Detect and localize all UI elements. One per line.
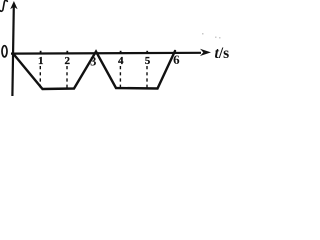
tick t=2: [66, 51, 68, 54]
faint speck 2: [215, 37, 217, 39]
dashed line t=1: [39, 66, 41, 89]
waveform trapezoid curve: [14, 51, 176, 89]
origin label 0: [2, 46, 7, 57]
faint speck 1: [202, 33, 204, 35]
svg-text:1: 1: [38, 55, 44, 67]
dashed line t=5: [146, 66, 148, 88]
y-axis arrowhead: [10, 1, 17, 9]
dashed line t=4: [119, 66, 121, 88]
dashed line t=2: [66, 66, 68, 89]
tick t=4: [120, 51, 122, 54]
x-axis arrowhead: [200, 49, 211, 56]
svg-text:6: 6: [173, 52, 180, 67]
svg-text:5: 5: [145, 55, 151, 67]
x-axis: [11, 52, 201, 55]
svg-text:2: 2: [65, 55, 71, 67]
tick t=1: [40, 51, 42, 54]
svg-text:3: 3: [90, 54, 96, 68]
y-axis: [12, 6, 13, 96]
tick t=5: [146, 51, 148, 54]
axis label f: [0, 0, 7, 11]
svg-text:4: 4: [118, 55, 124, 67]
faint speck 3: [219, 37, 221, 39]
svg-text:t/s: t/s: [215, 45, 230, 62]
